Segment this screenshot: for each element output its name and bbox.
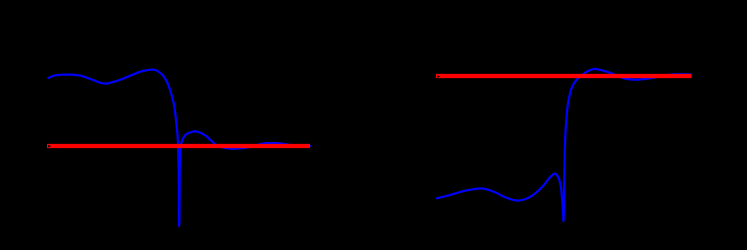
right panel signal curve (blue)	[437, 69, 691, 221]
left panel signal curve (blue)	[48, 70, 310, 226]
right red line start notch	[437, 75, 440, 78]
left red line start notch	[48, 145, 51, 148]
right panel reference line (red)	[436, 74, 692, 78]
left panel reference line (red)	[47, 144, 310, 148]
